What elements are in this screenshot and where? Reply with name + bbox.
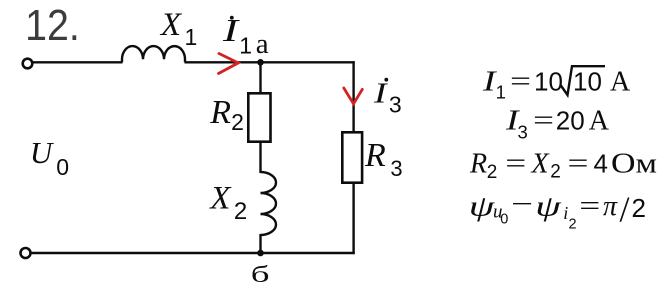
- current arrow I3 (red, pointing down): [344, 88, 363, 104]
- svg-text:2: 2: [632, 193, 646, 223]
- svg-text:X: X: [531, 148, 550, 179]
- wire right branch vertical from top corner down to resistor R3: [352, 61, 354, 133]
- wire from resistor R3 down to bottom right corner: [352, 183, 354, 255]
- svg-text:=: =: [568, 148, 589, 179]
- wire from inductor X2 down to node b: [259, 234, 261, 253]
- label R2: [209, 94, 244, 135]
- svg-text:ψ: ψ: [535, 191, 562, 223]
- node a (junction dot): [257, 59, 264, 66]
- svg-text:20: 20: [556, 105, 585, 135]
- svg-text:π: π: [603, 191, 618, 222]
- terminal (bottom left input): [21, 248, 31, 258]
- svg-text:X: X: [208, 180, 232, 216]
- resistor R2: [248, 93, 270, 141]
- equation line 1: I1 = 10*sqrt(10) A: [482, 66, 631, 102]
- svg-text:A: A: [610, 67, 631, 98]
- svg-text:=: =: [533, 105, 554, 136]
- svg-text:0: 0: [500, 211, 508, 227]
- svg-text:1: 1: [496, 82, 506, 103]
- svg-text:2: 2: [550, 162, 561, 183]
- svg-text:2: 2: [569, 217, 577, 233]
- equation line 2: I3 = 20 A: [505, 105, 610, 142]
- label I3 (current phasor with dot): [373, 78, 402, 118]
- inductor X1: [122, 46, 185, 62]
- svg-text:R: R: [209, 94, 231, 131]
- svg-text:=: =: [505, 148, 526, 179]
- svg-text:R: R: [364, 137, 386, 174]
- wire bottom from terminal through node b to right branch: [31, 252, 355, 254]
- svg-text:=: =: [579, 191, 600, 222]
- svg-text:0: 0: [56, 154, 69, 180]
- svg-text:a: a: [256, 28, 269, 60]
- wire from resistor R2 down to inductor X2: [259, 142, 261, 173]
- svg-text:10: 10: [534, 67, 563, 97]
- node b (junction dot): [257, 250, 264, 257]
- svg-text:=: =: [510, 67, 531, 98]
- svg-text:I: I: [373, 78, 389, 109]
- svg-text:3: 3: [518, 122, 528, 143]
- wire from top terminal to inductor X1: [33, 61, 123, 63]
- svg-text:X: X: [159, 7, 183, 43]
- equation line 3: R2 = X2 = 4 Ohm: [469, 148, 657, 183]
- svg-text:б: б: [251, 262, 270, 288]
- svg-text:2: 2: [231, 109, 244, 135]
- svg-text:Ом: Ом: [611, 148, 657, 179]
- svg-text:U: U: [30, 135, 55, 170]
- label X2: [208, 180, 247, 224]
- label I1 (current phasor with dot): [222, 12, 252, 58]
- wire from node a down to resistor R2: [259, 62, 261, 94]
- wire from inductor X1 to node a and on to right branch corner: [185, 61, 355, 63]
- label X1: [159, 7, 197, 50]
- svg-text:2: 2: [487, 162, 498, 183]
- svg-text:2: 2: [234, 198, 247, 225]
- svg-text:−: −: [511, 189, 533, 220]
- svg-text:1: 1: [239, 32, 252, 58]
- svg-text:4: 4: [594, 148, 608, 178]
- svg-text:/: /: [620, 189, 630, 229]
- svg-text:10: 10: [573, 67, 602, 97]
- svg-text:3: 3: [390, 156, 402, 181]
- svg-text:R: R: [469, 148, 487, 179]
- svg-text:A: A: [589, 105, 610, 136]
- svg-text:1: 1: [185, 24, 198, 50]
- resistor R3: [342, 132, 362, 182]
- label U0 (source voltage): [30, 135, 69, 180]
- svg-text:3: 3: [389, 92, 402, 118]
- terminal (top left input): [23, 59, 33, 69]
- current arrow I1 (red, pointing right): [219, 54, 239, 74]
- svg-text:12.: 12.: [25, 0, 80, 49]
- label R3: [364, 137, 403, 181]
- equation line 4: psi_u0 - psi_i2 = pi/2: [469, 189, 646, 232]
- svg-text:ψ: ψ: [469, 191, 496, 223]
- inductor X2: [261, 172, 277, 235]
